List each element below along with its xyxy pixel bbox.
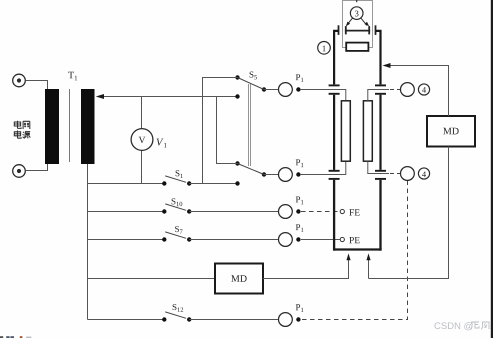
- left electrode column top contact: [334, 25, 338, 84]
- wire S10 to probe P1: [189, 211, 278, 213]
- 电 (line1): [14, 121, 21, 129]
- circled 1: [318, 42, 331, 55]
- 电 (line2): [14, 131, 21, 139]
- specimen rect in chamber: [346, 43, 368, 51]
- switch S10: [162, 198, 191, 213]
- circled 4 bottom: [418, 168, 429, 179]
- measuring device MD (right): [427, 116, 475, 147]
- test chamber outline (top): [343, 1, 373, 48]
- switch S7: [162, 226, 191, 242]
- probe P1 (top row): [279, 74, 304, 96]
- probe P1 (PE row): [279, 224, 304, 246]
- heating element tube left: [341, 101, 350, 161]
- watermark: [434, 322, 472, 330]
- wire S7 to probe P1: [189, 239, 278, 241]
- 网: [23, 121, 30, 129]
- bus from T1 secondary: [87, 164, 89, 320]
- dashed wire P1 to FE: [301, 211, 340, 213]
- wire S7 row left: [88, 239, 165, 241]
- right column top coupling capacitor: [375, 85, 386, 93]
- wire S5 lower-throw to T1 secondary with arrow: [103, 96, 238, 98]
- wire S1 to S5 contact: [189, 183, 237, 185]
- right column bottom coupling capacitor: [375, 171, 386, 179]
- probe P1 (second row): [279, 159, 304, 181]
- crossover wire lower throw to arrow wire: [217, 97, 238, 164]
- wire MD to enclosure arrow: [263, 258, 349, 279]
- arrow into enclosure right: [368, 258, 370, 279]
- switch S12: [162, 304, 191, 322]
- FE terminal: [340, 209, 359, 215]
- wire P1 to PE: [301, 239, 340, 241]
- wire electrode right top to monitor circle: [368, 90, 389, 101]
- monitor circle top: [401, 83, 415, 97]
- terminal upper (mains): [13, 74, 26, 87]
- wire P1 to specimen electrode left bottom: [300, 161, 346, 174]
- 源: [23, 132, 31, 139]
- wire MD right bottom to enclosure arrow: [369, 147, 449, 279]
- crossover wire upper throw to S1 row: [203, 78, 238, 184]
- switch S1: [162, 170, 191, 185]
- left column top coupling capacitor: [329, 85, 340, 93]
- S5 upper pole: [235, 75, 266, 98]
- left column bottom coupling capacitor: [329, 171, 340, 179]
- wire P1 to specimen electrode left top: [300, 90, 346, 101]
- wire S5 common to probe P1 top: [264, 89, 278, 91]
- dashed wire P1 to monitor circle: [302, 181, 408, 320]
- terminal lower (mains): [13, 165, 26, 178]
- page right border: [491, 0, 493, 338]
- left column mid section: [333, 95, 335, 170]
- probe P1 (bottom row): [279, 304, 304, 326]
- PE terminal: [340, 237, 359, 243]
- wire terminal upper to T1 primary: [26, 81, 48, 91]
- probe P1 (FE row): [279, 197, 304, 219]
- monitor circle bottom: [401, 167, 415, 181]
- label 电网电源 (mains supply): [14, 121, 30, 139]
- wire terminal lower to T1 primary: [26, 163, 48, 171]
- wire voltmeter: [141, 97, 143, 184]
- pointer arrows from 3: [346, 18, 369, 26]
- heating element tube right: [363, 101, 372, 161]
- wire S12 row left: [88, 319, 165, 321]
- wire S1 row left: [88, 183, 165, 185]
- enclosure box (FE/PE): [333, 180, 382, 251]
- circled 4 top: [418, 84, 429, 95]
- wire MD row left: [88, 278, 216, 280]
- T1 primary winding: [45, 89, 59, 164]
- transformer T1 label: [68, 72, 77, 81]
- T1 secondary winding: [81, 89, 95, 164]
- S5 lower pole: [235, 161, 266, 185]
- wire MD right top with arrow to right electrode: [390, 66, 449, 117]
- circled 3: [350, 0, 363, 19]
- wire S12 to probe P1: [189, 319, 278, 321]
- S5 mechanical link: [249, 84, 251, 166]
- switch S5 label: [250, 72, 257, 80]
- voltmeter V1: [131, 129, 153, 151]
- measuring device MD (left): [215, 264, 263, 294]
- wire S5 common to probe P1 second: [264, 174, 278, 176]
- clipped caption bottom-left: [0, 336, 31, 338]
- label V1: [157, 139, 164, 146]
- wire electrode right bottom to monitor circle: [368, 161, 389, 173]
- right electrode column top contact: [376, 25, 381, 84]
- heater bar assembly: [345, 26, 370, 34]
- T1 core: [69, 89, 71, 162]
- right column mid section: [379, 95, 381, 170]
- wire S10 row left: [88, 211, 165, 213]
